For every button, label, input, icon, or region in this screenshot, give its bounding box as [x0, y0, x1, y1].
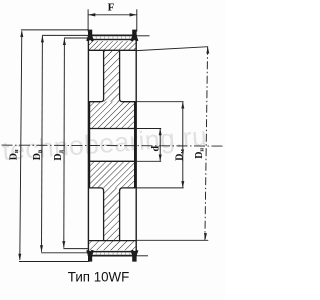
svg-text:F: F — [108, 1, 115, 13]
svg-text:Тип 10WF: Тип 10WF — [68, 268, 130, 284]
svg-text:d: d — [151, 146, 162, 152]
